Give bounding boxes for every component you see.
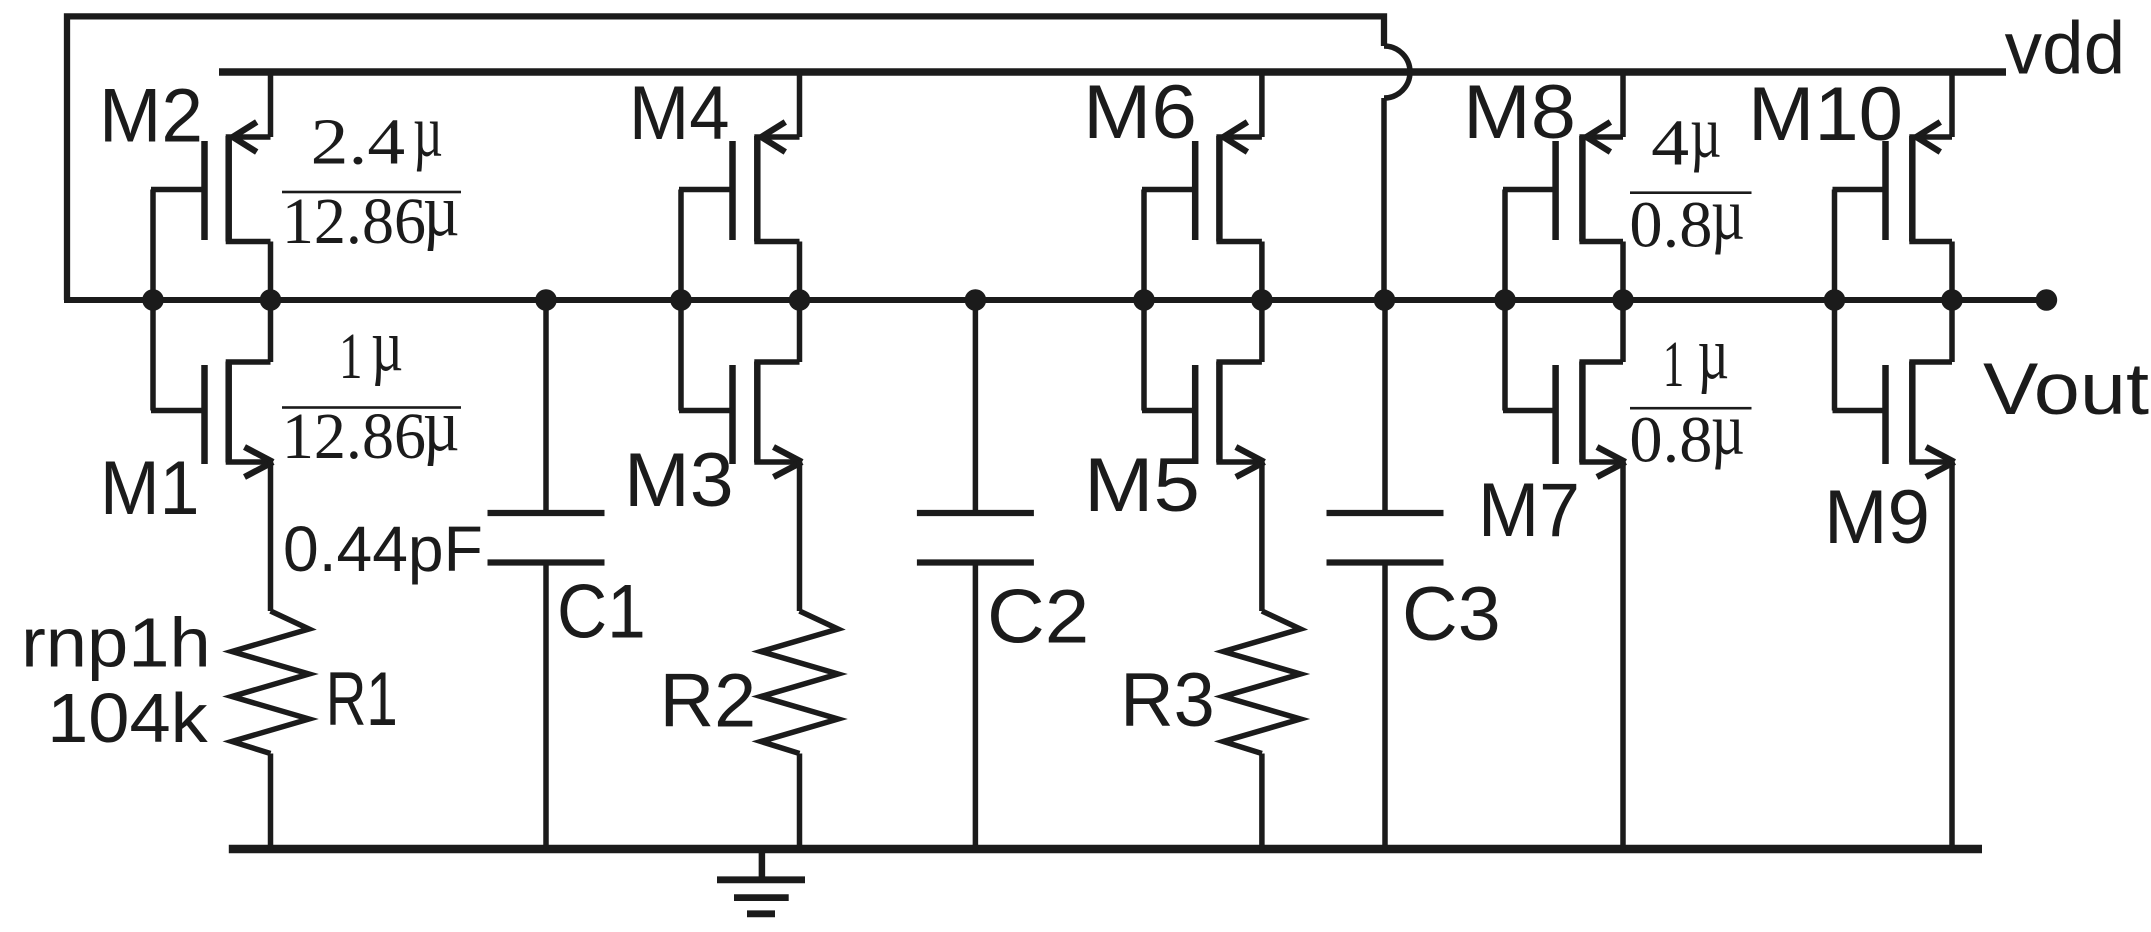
svg-text:µ: µ (1711, 389, 1745, 471)
transistor M10 (PMOS) (1833, 72, 1953, 300)
transistor M5 (NMOS) (1142, 300, 1264, 611)
wire: feedback from M2 drain-gate node over vdd to node of C3/M8 gate (67, 16, 1384, 300)
node: M4/M3 drains join mid rail (789, 289, 811, 311)
svg-text:M3: M3 (624, 438, 734, 523)
node: M10/M9 gates join mid rail (1824, 289, 1846, 311)
wire: shared gate of M6/M5 to mid rail (1141, 190, 1147, 411)
node: M10/M9 drains join mid rail (1941, 289, 1963, 311)
svg-text:C2: C2 (987, 575, 1089, 660)
transistor M4 (PMOS) (679, 72, 800, 300)
svg-text:M7: M7 (1478, 468, 1580, 553)
node: M2/M1 drains join mid rail (260, 289, 282, 311)
svg-text:vdd: vdd (2005, 7, 2126, 90)
svg-text:1: 1 (339, 320, 363, 393)
svg-text:2.4: 2.4 (311, 106, 405, 179)
capacitor C2 (917, 300, 1034, 849)
fraction bar M7 W/L (1630, 407, 1752, 410)
mid rail wire (common node row) (64, 297, 2046, 303)
svg-text:M6: M6 (1083, 70, 1197, 155)
svg-text:12.86: 12.86 (282, 400, 426, 473)
value label M8 W = 4u (numerator) (1651, 91, 1721, 179)
svg-text:M1: M1 (100, 446, 200, 531)
value label M2 L = 12.86u (denominator) (282, 170, 460, 258)
svg-text:0.8: 0.8 (1629, 188, 1712, 261)
transistor M9 (NMOS) (1833, 300, 1955, 849)
svg-text:0.8: 0.8 (1629, 404, 1712, 477)
ground (717, 849, 805, 914)
node: M6/M5 gates join mid rail (1133, 289, 1155, 311)
value label M2 W = 2.4u (numerator) (311, 91, 443, 179)
wire hop: arc crossing over vdd rail (1384, 46, 1410, 98)
node: M8/M7 gates join mid rail (1494, 289, 1516, 311)
svg-text:Vout: Vout (1983, 349, 2149, 430)
fraction bar M8 W/L (1630, 191, 1752, 194)
svg-text:rnp1h: rnp1h (21, 604, 211, 682)
svg-text:µ: µ (423, 385, 460, 467)
resistor R3 (1223, 611, 1300, 849)
transistor M7 (NMOS) (1503, 300, 1626, 849)
transistor M6 (PMOS) (1142, 72, 1262, 300)
value label M1 L = 12.86u (denominator) (282, 385, 460, 473)
svg-text:12.86: 12.86 (282, 185, 426, 258)
node: M8/M7 drains join mid rail (1612, 289, 1634, 311)
node: C2 top joins mid rail (965, 289, 987, 311)
svg-text:R3: R3 (1120, 658, 1215, 743)
value label M1 W = 1u (numerator) (339, 305, 403, 393)
transistor M1 (NMOS) (151, 300, 273, 611)
svg-text:1: 1 (1663, 328, 1684, 401)
svg-text:µ: µ (371, 305, 403, 387)
wire: shared gate of M8/M7 to mid rail (1502, 190, 1508, 411)
node: M4/M3 gates join mid rail (670, 289, 692, 311)
wire: hop to mid-rail node (1381, 98, 1387, 300)
svg-text:µ: µ (423, 170, 460, 252)
value label M8 L = 0.8u (denominator) (1629, 173, 1744, 261)
svg-text:R2: R2 (660, 658, 757, 743)
capacitor C3 (1327, 300, 1444, 849)
wire: shared gate of M2/M1 to mid rail (150, 190, 156, 411)
svg-text:µ: µ (1711, 173, 1745, 255)
svg-text:M10: M10 (1748, 72, 1903, 157)
fraction bar M1 W/L (282, 406, 461, 409)
wire: shared gate of M4/M3 to mid rail (678, 190, 684, 411)
node: C1 top joins mid rail (535, 289, 557, 311)
wire: shared gate of M10/M9 to mid rail (1832, 190, 1838, 411)
svg-text:C3: C3 (1402, 572, 1501, 657)
value label M7 L = 0.8u (denominator) (1629, 389, 1744, 477)
svg-text:µ: µ (1698, 313, 1729, 395)
value label M7 W = 1u (numerator) (1663, 313, 1729, 401)
node: M6/M5 drains join mid rail (1251, 289, 1273, 311)
svg-text:µ: µ (413, 91, 443, 173)
node: M2/M1 gates join mid rail (142, 289, 164, 311)
svg-text:104k: 104k (47, 679, 209, 757)
svg-text:0.44pF: 0.44pF (283, 513, 483, 585)
vdd power rail (219, 68, 2006, 76)
node: feedback wire and C3 join mid rail (1374, 289, 1396, 311)
svg-text:R1: R1 (326, 657, 398, 742)
svg-text:M2: M2 (99, 74, 203, 159)
svg-text:4: 4 (1651, 106, 1689, 179)
capacitor C1 (488, 300, 605, 849)
resistor R1 (232, 611, 309, 849)
node Vout output terminal (2036, 289, 2058, 311)
svg-text:M9: M9 (1824, 475, 1930, 560)
ground rail wire (229, 845, 1982, 854)
transistor M3 (NMOS) (679, 300, 802, 611)
transistor M2 (PMOS) (151, 72, 271, 300)
svg-text:M5: M5 (1084, 443, 1200, 528)
svg-text:µ: µ (1690, 91, 1721, 173)
svg-text:M8: M8 (1463, 70, 1576, 155)
fraction bar M2 W/L (282, 191, 461, 194)
svg-text:C1: C1 (557, 570, 646, 655)
svg-text:M4: M4 (629, 71, 730, 156)
transistor M8 (PMOS) (1503, 72, 1623, 300)
resistor R2 (761, 611, 838, 849)
